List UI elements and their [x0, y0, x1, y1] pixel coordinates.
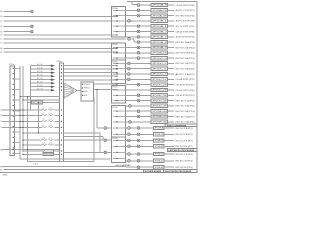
net label JP20D-45	[151, 104, 167, 107]
svg-text:INV SO 1 A (P15): INV SO 1 A (P15)	[176, 62, 195, 65]
wire bus	[22, 66, 24, 150]
pin	[116, 48, 117, 49]
wire	[14, 89, 20, 91]
test point	[137, 115, 140, 118]
test point	[137, 41, 140, 44]
pin	[82, 91, 83, 92]
wire	[164, 140, 174, 142]
wire	[126, 68, 128, 70]
wire	[140, 133, 154, 135]
svg-text:INV SO 2 A (P14): INV SO 2 A (P14)	[176, 57, 195, 60]
wire	[140, 160, 154, 162]
net label JP20E-36	[151, 120, 167, 123]
wire	[14, 67, 20, 69]
wire	[126, 133, 128, 135]
pin	[61, 65, 62, 66]
svg-text:JP20C-17: JP20C-17	[152, 79, 167, 81]
svg-text:CH H STR (P6): CH H STR (P6)	[176, 90, 195, 92]
junction	[38, 102, 39, 103]
bus merger	[64, 83, 77, 99]
wire	[140, 15, 151, 17]
wire	[164, 160, 174, 162]
wire diode row 4	[30, 75, 51, 77]
pin	[82, 95, 83, 96]
test point	[104, 127, 107, 130]
svg-text:0.1K: 0.1K	[49, 119, 52, 121]
net label JP20C-5	[151, 62, 167, 65]
svg-text:R11 0.1K: R11 0.1K	[44, 151, 54, 153]
svg-text:5A: 5A	[0, 30, 3, 33]
test point	[137, 36, 140, 39]
wire pin stub	[113, 110, 126, 112]
wire	[140, 145, 154, 147]
wire	[140, 94, 151, 96]
wire	[64, 87, 74, 90]
node	[76, 90, 77, 91]
pin	[116, 34, 117, 35]
diode D8	[51, 89, 55, 91]
wire	[2, 120, 42, 122]
wire	[126, 46, 137, 48]
svg-text:JP20A: JP20A	[112, 7, 118, 10]
svg-text:9B: 9B	[0, 169, 3, 171]
svg-text:C11: C11	[43, 143, 46, 145]
pin	[13, 115, 14, 116]
wire	[140, 41, 151, 43]
wire pin stub	[113, 15, 126, 17]
svg-text:JP20F: JP20F	[112, 138, 118, 140]
wire pin stub	[113, 151, 126, 153]
pin	[116, 65, 117, 66]
test point	[128, 38, 131, 41]
pin	[116, 111, 117, 112]
svg-text:JP20D-26: JP20D-26	[152, 90, 167, 92]
svg-text:GND: GND	[3, 174, 8, 176]
pin	[61, 109, 62, 110]
wire	[14, 120, 20, 122]
pin	[61, 121, 62, 122]
wire	[140, 110, 151, 112]
wire net 5D	[4, 42, 118, 44]
svg-text:C7: C7	[43, 113, 45, 115]
wire pin stub	[113, 73, 126, 75]
capacitor C8	[42, 120, 47, 122]
wire net 4B	[4, 15, 118, 17]
wire	[126, 73, 128, 75]
svg-text:C10: C10	[43, 138, 46, 140]
svg-text:MOTHER BOARD: MOTHER BOARD	[145, 170, 162, 173]
wire pin stub	[113, 145, 126, 147]
svg-text:TRIM1-1: TRIM1-1	[84, 84, 91, 86]
svg-text:INV SO 3 A (P14): INV SO 3 A (P14)	[176, 46, 195, 49]
svg-text:0.1K: 0.1K	[49, 108, 52, 110]
net label JP20D-36	[151, 94, 167, 97]
wire	[126, 166, 137, 168]
wire pin stub	[113, 9, 126, 11]
pin	[116, 79, 117, 80]
net label JP20B-2	[151, 30, 167, 33]
wire	[14, 152, 20, 154]
test point	[137, 94, 140, 97]
wire	[126, 62, 128, 64]
wire	[140, 46, 151, 48]
capacitor C6b	[48, 109, 53, 111]
svg-text:JP20A-38: JP20A-38	[152, 14, 167, 17]
wire pin stub	[113, 20, 126, 22]
net label JP20C-4	[151, 56, 167, 59]
svg-text:4C: 4C	[0, 21, 3, 23]
svg-text:C6: C6	[43, 108, 45, 110]
resistor R12	[43, 153, 54, 156]
svg-text:JP20E-8: JP20E-8	[154, 128, 163, 130]
wire pin stub	[113, 140, 126, 142]
wire	[140, 116, 151, 118]
wire	[126, 153, 128, 155]
pin	[13, 100, 14, 101]
svg-text:INV SO 4 A (P8): INV SO 4 A (P8)	[176, 121, 195, 124]
wire diode row 5	[30, 79, 51, 81]
wire net 6A	[4, 48, 118, 50]
wire	[131, 133, 137, 135]
svg-text:INV SO F A (P15): INV SO F A (P15)	[176, 52, 195, 55]
wire	[168, 94, 175, 96]
pin	[116, 31, 117, 32]
svg-text:JP20D-45: JP20D-45	[152, 106, 167, 108]
wire	[132, 38, 134, 40]
pin	[116, 51, 117, 52]
wire	[99, 133, 101, 152]
wire	[131, 20, 152, 22]
pin	[61, 144, 62, 145]
svg-text:0.1K: 0.1K	[49, 113, 52, 115]
wire	[63, 68, 117, 70]
test point	[127, 67, 130, 70]
wire	[28, 102, 32, 104]
pin	[61, 139, 62, 140]
wire	[126, 36, 137, 38]
wire	[96, 90, 98, 129]
svg-text:JP20C-7: JP20C-7	[152, 74, 167, 76]
wire	[126, 25, 137, 27]
svg-text:JP20C-6: JP20C-6	[152, 68, 167, 70]
svg-text:JP20E-48: JP20E-48	[154, 167, 163, 169]
svg-text:JP20B-8: JP20B-8	[152, 42, 167, 44]
wire	[14, 142, 20, 144]
svg-text:JP20E: JP20E	[112, 107, 118, 109]
test point	[30, 25, 33, 28]
net label JP20B-18	[151, 51, 167, 54]
net label JP20C-28	[151, 83, 167, 86]
svg-text:JP20B-1: JP20B-1	[152, 21, 167, 23]
wire diode row 3	[30, 72, 51, 74]
wire	[168, 20, 175, 22]
wire	[168, 57, 175, 59]
capacitor C6	[42, 109, 47, 111]
net label JP20E-45	[151, 115, 167, 118]
svg-text:AC/PC 1 A (P5): AC/PC 1 A (P5)	[176, 73, 195, 76]
svg-text:JP20E-18: JP20E-18	[154, 134, 163, 136]
test point	[128, 145, 131, 148]
wire	[23, 144, 42, 146]
wire	[126, 52, 137, 54]
pin	[116, 10, 117, 11]
wire	[126, 105, 129, 107]
pin	[82, 87, 83, 88]
capacitor C10b	[48, 139, 53, 141]
net label JP20B-8	[151, 40, 167, 43]
wire	[126, 110, 137, 112]
pin	[116, 89, 117, 90]
svg-text:0.1K: 0.1K	[49, 138, 52, 140]
pin	[116, 127, 117, 128]
diode D7	[51, 86, 55, 88]
svg-text:RIGHT MICRO PROCESSOR: RIGHT MICRO PROCESSOR	[165, 171, 192, 173]
wire	[23, 132, 60, 134]
svg-text:JP20A-8: JP20A-8	[152, 4, 167, 7]
section label A/DIG CONVERTER	[165, 124, 197, 127]
resistor R11	[43, 150, 54, 153]
wire	[0, 171, 197, 173]
capacitor C7b	[48, 114, 53, 116]
svg-text:B6 0.1K: B6 0.1K	[37, 82, 44, 84]
pin	[116, 116, 117, 117]
test point	[137, 166, 140, 169]
wire	[168, 105, 175, 107]
svg-text:JP20E-36: JP20E-36	[152, 122, 167, 124]
test point	[137, 25, 140, 28]
wire pin stub	[113, 52, 126, 54]
svg-text:AC/PC B STR (P13): AC/PC B STR (P13)	[176, 36, 195, 39]
pin	[116, 79, 117, 80]
pin	[116, 15, 117, 16]
svg-text:JP20C-28: JP20C-28	[152, 84, 167, 86]
pin	[13, 126, 14, 127]
pin	[116, 73, 117, 74]
svg-text:CB A STR (P9): CB A STR (P9)	[176, 30, 195, 33]
wire pin stub	[113, 25, 126, 27]
wire	[131, 145, 137, 147]
svg-text:A-2B: A-2B	[84, 94, 89, 97]
pin	[116, 158, 117, 159]
pin	[116, 63, 117, 64]
pin	[13, 94, 14, 95]
wire	[54, 153, 60, 155]
pin	[13, 73, 14, 74]
wire	[140, 9, 151, 11]
pin	[82, 84, 83, 85]
wire	[37, 103, 39, 134]
wire	[102, 137, 104, 141]
wire	[63, 75, 117, 77]
test point	[128, 127, 131, 130]
wire pin stub	[113, 89, 126, 91]
wire	[168, 46, 175, 48]
svg-text:INV TRU STR (P16): INV TRU STR (P16)	[176, 15, 195, 17]
test point	[137, 46, 140, 49]
svg-text:C8: C8	[43, 119, 45, 121]
wire	[111, 136, 125, 138]
pin	[13, 110, 14, 111]
wire	[14, 131, 20, 133]
svg-text:INV SO 1 A (P4): INV SO 1 A (P4)	[176, 99, 195, 102]
section label LEFT MICRO PROCESSOR	[168, 149, 197, 152]
connector JP20D	[111, 85, 125, 103]
wire	[131, 68, 152, 70]
net label JP20C-7	[151, 72, 167, 75]
wire	[126, 140, 128, 142]
wire	[126, 15, 137, 17]
svg-text:INV SO 2 A (P14): INV SO 2 A (P14)	[176, 110, 195, 113]
svg-text:AC/PC C STR (P7): AC/PC C STR (P7)	[176, 9, 195, 12]
wire	[126, 31, 137, 33]
pin	[61, 76, 62, 77]
wire	[140, 153, 154, 155]
wire diode row 1	[30, 65, 51, 67]
capacitor C10	[42, 139, 47, 141]
wire	[77, 90, 81, 92]
pin	[61, 72, 62, 73]
svg-text:CH H STR (P6): CH H STR (P6)	[176, 5, 195, 7]
net label JP20E-46	[154, 152, 164, 155]
test point	[137, 83, 140, 86]
svg-text:JP20D-46: JP20D-46	[152, 100, 167, 102]
wire	[140, 52, 151, 54]
pin	[13, 142, 14, 143]
test point	[127, 73, 130, 76]
svg-text:5D: 5D	[0, 43, 3, 45]
pin	[116, 57, 117, 58]
wire pin stub	[113, 127, 126, 129]
wire	[164, 133, 174, 135]
net label JP20A-38	[151, 14, 167, 17]
pin	[116, 69, 117, 70]
wire	[140, 57, 151, 59]
wire	[93, 97, 95, 162]
wire	[168, 116, 175, 118]
svg-text:INV SO 3 A (P6): INV SO 3 A (P6)	[176, 105, 195, 108]
svg-text:JP20E-45: JP20E-45	[152, 116, 167, 118]
wire	[126, 84, 137, 86]
test point	[137, 4, 140, 7]
test point	[128, 139, 131, 142]
wire	[97, 127, 104, 129]
wire net 5B	[4, 34, 118, 36]
wire bus	[19, 66, 21, 159]
wire pin stub	[113, 100, 126, 102]
wire	[168, 25, 175, 27]
svg-text:JP20C-4: JP20C-4	[152, 58, 167, 60]
wire	[126, 9, 137, 11]
wire	[126, 100, 137, 102]
pin	[116, 72, 117, 73]
wire bus	[27, 97, 29, 162]
svg-text:INV SO 3 A (P7): INV SO 3 A (P7)	[176, 115, 195, 118]
test point	[137, 127, 140, 130]
wire bus	[29, 66, 31, 110]
svg-text:JP20B-9: JP20B-9	[152, 47, 167, 49]
svg-text:4A: 4A	[0, 10, 3, 13]
pin	[116, 21, 117, 22]
test point	[128, 159, 131, 162]
pin	[61, 79, 62, 80]
wire	[63, 132, 100, 134]
svg-text:B8 0.1K: B8 0.1K	[37, 89, 44, 91]
capacitor C8b	[48, 120, 53, 122]
wire	[132, 105, 152, 107]
net label JP20A-8	[151, 3, 167, 6]
wire	[140, 4, 151, 6]
wire	[168, 41, 175, 43]
wire	[131, 62, 152, 64]
wire	[133, 39, 135, 42]
wire	[94, 83, 117, 85]
wire	[131, 78, 152, 80]
wire	[63, 72, 117, 74]
wire	[168, 78, 175, 80]
net label JP20E-47	[154, 159, 164, 162]
wire pin stub	[113, 94, 126, 96]
svg-text:JP20D: JP20D	[112, 87, 118, 89]
wire	[107, 139, 111, 141]
wire	[131, 1, 133, 4]
net label JP20C-6	[151, 67, 167, 70]
net label JP20E-48	[154, 166, 164, 169]
svg-text:JP20A-28: JP20A-28	[152, 9, 167, 12]
svg-text:6B: 6B	[0, 52, 3, 54]
net label JP20E-44	[151, 110, 167, 113]
wire pin stub	[113, 158, 126, 160]
svg-text:4B: 4B	[0, 16, 3, 18]
wire	[131, 127, 137, 129]
svg-text:JP20E-38: JP20E-38	[154, 146, 163, 148]
wire	[168, 110, 175, 112]
svg-text:B4 0.1K: B4 0.1K	[37, 75, 44, 77]
pin	[61, 83, 62, 84]
pin	[116, 76, 117, 77]
test point	[137, 139, 140, 142]
pin	[13, 121, 14, 122]
pin	[116, 42, 117, 43]
net label JP20C-17	[151, 78, 167, 81]
wire pin stub	[113, 31, 126, 33]
wire	[168, 73, 175, 75]
wire	[55, 144, 60, 146]
connector JP20E	[111, 106, 125, 163]
capacitor C9	[42, 126, 47, 128]
wire	[4, 169, 197, 171]
svg-text:INV SO 1 B (P3): INV SO 1 B (P3)	[176, 154, 193, 156]
wire	[55, 126, 60, 128]
wire	[64, 85, 74, 89]
svg-text:JP20B-2: JP20B-2	[152, 31, 167, 33]
wire	[23, 153, 42, 155]
svg-text:5B: 5B	[0, 35, 3, 37]
pin	[13, 78, 14, 79]
test point	[137, 145, 140, 148]
wire net 5A	[4, 31, 31, 33]
wire	[23, 99, 60, 101]
pin	[61, 69, 62, 70]
svg-text:LEFT MICRO PROCESSOR: LEFT MICRO PROCESSOR	[169, 150, 195, 152]
svg-text:R6 0.1K: R6 0.1K	[32, 102, 43, 104]
pin	[116, 134, 117, 135]
wire	[164, 145, 174, 147]
connector JP20A	[111, 7, 125, 37]
diode D2	[51, 68, 55, 70]
net label JP20B-7	[151, 35, 167, 38]
pin	[13, 131, 14, 132]
wire pin stub	[113, 68, 126, 70]
